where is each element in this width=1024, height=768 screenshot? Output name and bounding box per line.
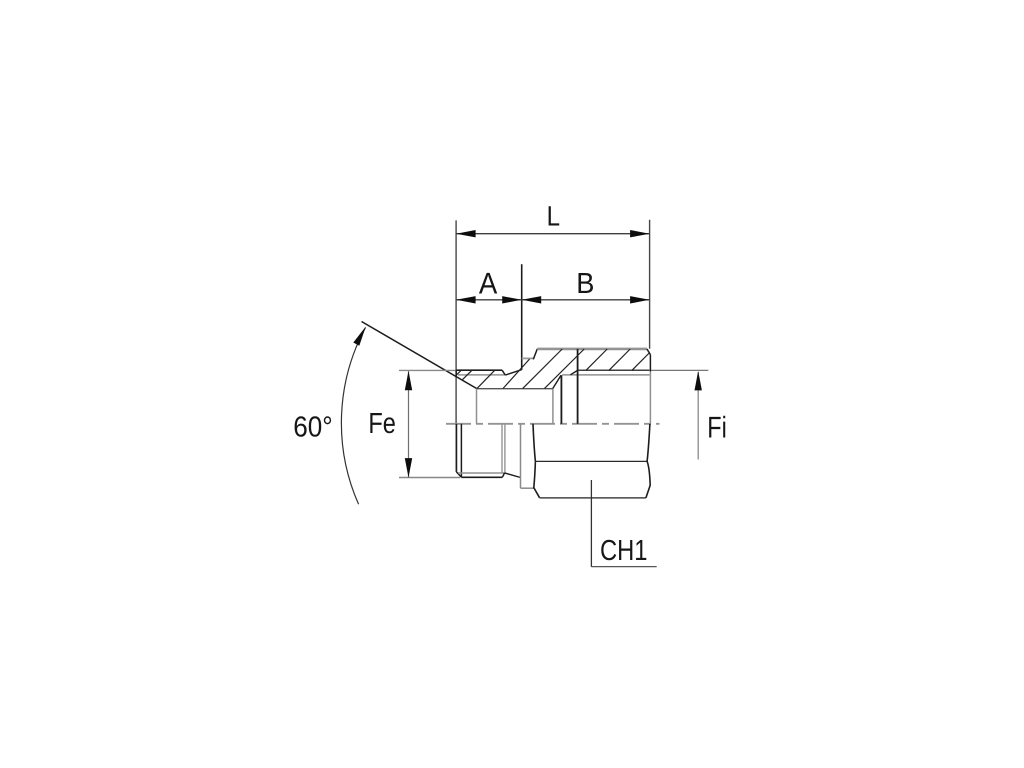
thread start line <box>560 375 562 424</box>
centerline axis <box>446 423 660 425</box>
hatch line 3 <box>503 359 530 389</box>
hatch line 1 <box>462 370 472 380</box>
male end face edge (section) <box>455 370 457 376</box>
dimension line L <box>456 233 649 235</box>
hatch line 6 <box>586 349 607 370</box>
svg-text:Fe: Fe <box>368 408 396 440</box>
svg-text:CH1: CH1 <box>600 535 648 567</box>
hex edge line (bottom view) <box>535 460 647 462</box>
male thread root line (section top) <box>458 374 505 376</box>
60-degree cone line <box>362 322 477 389</box>
hatch line 4 <box>523 349 563 389</box>
full thread limit line <box>577 349 579 424</box>
hatch line 8 <box>632 353 649 370</box>
collar step line <box>522 357 534 359</box>
svg-text:60°: 60° <box>293 411 333 443</box>
male thread runout line <box>505 370 521 375</box>
male thread chamfer (section) <box>456 370 461 375</box>
dimension line B <box>522 299 650 301</box>
Fe upper extension line <box>399 369 457 371</box>
dimension L extension line left <box>455 220 457 423</box>
hatch line 7 <box>609 349 630 370</box>
Fe arrow up <box>405 371 412 391</box>
arrow B right <box>630 296 650 303</box>
svg-text:Fi: Fi <box>707 411 727 444</box>
arrow L right <box>630 230 650 237</box>
right end face (section) <box>649 355 651 372</box>
svg-text:B: B <box>576 268 594 300</box>
cone apex back edge <box>476 389 478 424</box>
bore end back edge <box>552 389 554 424</box>
svg-text:A: A <box>479 267 497 300</box>
svg-text:L: L <box>547 201 560 232</box>
60-degree dimension arc <box>341 328 365 505</box>
drill cone flank <box>553 375 561 389</box>
Fi arrow up <box>695 371 702 391</box>
hex chamfer edge (section) <box>533 349 537 359</box>
male end chamfer (bottom view) <box>456 472 461 477</box>
male runout (bottom view) <box>505 473 521 478</box>
male thread crest line (section top) <box>456 369 502 371</box>
male crest step (bottom view) <box>502 473 504 477</box>
hex outer line (section top) <box>537 348 647 351</box>
female thread root line <box>578 369 650 371</box>
hex left face (bottom view) <box>533 424 540 498</box>
bore line <box>477 388 553 390</box>
thread step back edge 1 (bottom view) <box>501 424 503 473</box>
male chamfer circle edge (bottom view) <box>460 424 462 477</box>
female thread runout <box>570 370 577 374</box>
Fe lower extension line <box>399 477 460 479</box>
arrowhead on arc <box>353 327 366 346</box>
collar face (bottom view) <box>520 424 522 488</box>
collar bottom line <box>521 487 535 489</box>
Fi extension line <box>651 369 709 371</box>
Fe arrow down <box>405 458 412 478</box>
male end face (bottom view) <box>455 424 457 472</box>
arrow B left <box>522 296 542 303</box>
male thread crest step <box>502 370 505 375</box>
Fi dimension line <box>697 372 699 460</box>
CH1 leader line <box>590 480 592 567</box>
Fe dimension line <box>408 371 410 477</box>
hex right face (bottom view) <box>646 424 650 498</box>
dimension L extension line right <box>649 220 651 349</box>
hex silhouette bottom <box>540 497 646 499</box>
female thread crest line <box>562 374 649 376</box>
dimension A/B middle extension line <box>521 264 523 370</box>
thread step back edge 2 (bottom view) <box>504 424 506 473</box>
right end chamfer (section) <box>647 349 651 355</box>
male thread root line (bottom view) <box>458 472 505 474</box>
CH1 underline <box>591 566 656 568</box>
hatch line 2 <box>477 370 495 388</box>
arrow A right <box>502 296 522 303</box>
hatch line 5 <box>544 349 584 389</box>
opening back edge right <box>649 372 651 424</box>
male thread crest line (bottom view) <box>461 476 502 478</box>
arrow A left <box>456 296 476 303</box>
arrow L left <box>456 230 476 237</box>
dimension line A <box>456 299 522 301</box>
